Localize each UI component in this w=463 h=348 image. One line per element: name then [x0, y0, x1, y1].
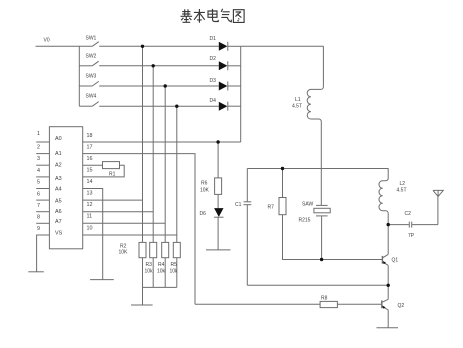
svg-text:R3: R3 [146, 262, 153, 268]
diode D2 [219, 61, 228, 70]
wire R4 bottom [164, 258, 166, 288]
svg-text:SW2: SW2 [86, 54, 97, 60]
title 基本电气图 (drawn strokes) [181, 9, 245, 23]
wire pin 12 to bus2 [83, 211, 154, 213]
wire row2 to SW2 [79, 65, 92, 67]
capacitor C1 [244, 169, 252, 286]
svg-text:D2: D2 [210, 56, 217, 62]
node SW2 tap [152, 64, 155, 67]
node SW3 tap [164, 84, 167, 87]
pin 3 stub [36, 164, 49, 166]
svg-text:R8: R8 [321, 296, 328, 302]
node V0 input wire [36, 45, 93, 47]
svg-text:4.5T: 4.5T [397, 188, 407, 194]
wire D4 to bus [228, 105, 241, 107]
svg-text:4.5T: 4.5T [292, 104, 302, 110]
svg-text:R6: R6 [201, 181, 208, 187]
svg-text:15: 15 [87, 168, 93, 174]
resistor R7 [279, 198, 286, 215]
pin 9 stub [36, 234, 49, 236]
pin 6 stub [36, 199, 49, 201]
ground below D6 [206, 249, 231, 251]
svg-text:D4: D4 [210, 98, 217, 104]
svg-text:10K: 10K [200, 188, 210, 194]
svg-text:17: 17 [87, 145, 93, 151]
ground below Q2 [377, 327, 399, 329]
svg-text:VS: VS [55, 231, 63, 237]
wire SW1 to D1 [99, 45, 219, 47]
title char 本 [194, 9, 205, 23]
svg-text:SW3: SW3 [86, 74, 97, 80]
wire vertical bus 4 [176, 106, 178, 242]
diode D3 [219, 82, 228, 91]
svg-text:14: 14 [87, 179, 93, 185]
wire vertical bus 3 [164, 86, 166, 242]
svg-text:10k: 10k [170, 269, 179, 275]
switch SW2 [92, 61, 98, 66]
svg-text:16: 16 [87, 156, 93, 162]
svg-text:11: 11 [87, 214, 93, 220]
svg-text:R4: R4 [158, 262, 165, 268]
wire L1 to crystal [320, 122, 322, 206]
svg-text:Q1: Q1 [392, 258, 399, 264]
wire R2 bottom [142, 258, 144, 288]
wire R8 to Q2 base [337, 303, 381, 305]
svg-text:L2: L2 [400, 181, 406, 187]
wire R3 bottom [152, 258, 154, 288]
svg-text:SW1: SW1 [86, 36, 97, 42]
svg-text:SAW: SAW [302, 202, 313, 208]
wire pin 11 to bus3 [83, 222, 166, 224]
inductor L2 [379, 169, 388, 214]
pin 2 stub [36, 153, 49, 155]
wire R7 branch [282, 169, 284, 198]
wire R6 branch [217, 142, 219, 178]
wire SW3 to D3 [99, 85, 219, 87]
svg-text:V0: V0 [44, 38, 50, 44]
svg-text:A1: A1 [55, 151, 62, 157]
svg-text:10K: 10K [119, 250, 129, 256]
svg-text:R215: R215 [299, 218, 311, 224]
svg-text:C2: C2 [405, 211, 412, 217]
wire R1 loop to pin 15 [83, 165, 125, 177]
wire pin 17 branch [83, 154, 195, 305]
node Q1 base [320, 258, 323, 261]
wire pin9 to ground [36, 235, 38, 272]
title char 基 [181, 9, 193, 22]
wire base rail to Q1 [322, 259, 383, 261]
wire resistor bottom rail [143, 286, 177, 288]
svg-text:6: 6 [37, 192, 40, 198]
svg-text:R7: R7 [268, 205, 275, 211]
svg-text:5: 5 [37, 180, 40, 186]
svg-text:R1: R1 [109, 172, 116, 178]
title char 气 [221, 9, 231, 22]
wire R6 to D6 [217, 194, 219, 208]
antenna ANT1 [433, 190, 443, 196]
svg-text:10k: 10k [145, 269, 154, 275]
diode D4 [219, 102, 228, 111]
svg-text:SW4: SW4 [86, 94, 97, 100]
wire SW4 to D4 [99, 105, 219, 107]
switch SW3 [92, 81, 98, 86]
wire pin 10 to bus4 [83, 234, 177, 236]
wire row3 to SW3 [79, 85, 92, 87]
svg-text:10k: 10k [157, 269, 166, 275]
switch SW4 [92, 102, 98, 107]
ground below resistor network [131, 304, 153, 306]
svg-text:L1: L1 [295, 97, 301, 103]
svg-text:7: 7 [37, 203, 40, 209]
wire D6 to ground [217, 217, 219, 250]
resistor R8 [320, 301, 337, 307]
resistor R6 [215, 178, 222, 195]
wire rail to ground [142, 287, 144, 305]
wire Q1 emitter down [387, 265, 389, 285]
wire vertical bus 2 [152, 66, 154, 243]
wire D2 to bus [228, 65, 241, 67]
wire pin18 row to diode bus [83, 141, 241, 143]
diode D1 [219, 42, 228, 51]
wire Q2 emitter down [387, 310, 389, 328]
wire Q2 collector up [387, 285, 389, 299]
svg-text:1: 1 [37, 131, 40, 137]
pin 1 stub [36, 141, 49, 143]
pin 4 stub [36, 176, 49, 178]
resistor R5 [173, 242, 180, 257]
svg-text:A5: A5 [55, 199, 62, 205]
svg-text:A3: A3 [55, 176, 62, 182]
wire row4 to SW4 [79, 105, 92, 107]
wire oscillator top rail [247, 168, 388, 170]
switch SW1 [92, 42, 98, 47]
ground below pin 14 [90, 279, 114, 281]
wire diode output bus [240, 46, 242, 142]
svg-text:7P: 7P [408, 233, 415, 239]
resistor R4 [162, 242, 169, 257]
wire emitter rail [247, 284, 388, 286]
diode D6 [214, 208, 223, 217]
capacitor C2 [388, 222, 438, 228]
svg-text:18: 18 [87, 133, 93, 139]
svg-text:R5: R5 [171, 262, 178, 268]
svg-text:10: 10 [87, 226, 93, 232]
wire D1 to bus [228, 45, 241, 47]
svg-text:3: 3 [37, 156, 40, 162]
node R7 tap [281, 167, 284, 170]
wire antenna mast [437, 197, 439, 225]
wire left branch vertical [78, 46, 80, 106]
wire top rail to L1 [241, 45, 324, 47]
wire D3 to bus [228, 85, 241, 87]
IC U1 body [49, 127, 82, 249]
inductor L1 [307, 46, 323, 121]
svg-text:2: 2 [37, 145, 40, 151]
node L2 tap [387, 223, 390, 226]
resistor R3 [150, 242, 157, 257]
pin 8 stub [36, 222, 49, 224]
svg-text:Q2: Q2 [398, 303, 405, 309]
wire R5 bottom [176, 258, 178, 288]
resistor R1 [103, 162, 120, 169]
wire pin 16 to R1 [83, 164, 103, 166]
svg-text:C1: C1 [235, 202, 242, 208]
ground below pin 9 [28, 271, 44, 273]
wire pin17 branch to R8 [195, 303, 320, 305]
svg-text:12: 12 [87, 202, 93, 208]
wire tap to Q1 collector [387, 225, 389, 255]
svg-text:D3: D3 [210, 78, 217, 84]
pin 5 stub [36, 188, 49, 190]
node Q1 emitter / Q2 collector [387, 284, 390, 287]
wire R7 to base rail [283, 215, 322, 260]
crystal SAW R215 [314, 205, 330, 216]
svg-text:A4: A4 [55, 187, 62, 193]
svg-text:D1: D1 [210, 36, 217, 42]
svg-text:D6: D6 [200, 211, 207, 217]
svg-text:9: 9 [37, 226, 40, 232]
wire pin 14 to ground [83, 189, 103, 280]
title char 电 [208, 9, 218, 22]
node R6 tap [216, 140, 219, 143]
node SW1 tap [141, 45, 144, 48]
svg-text:A6: A6 [55, 209, 62, 215]
transistor Q1 [382, 254, 388, 265]
svg-text:4: 4 [37, 168, 40, 174]
wire SW2 to D2 [99, 65, 219, 67]
resistor R2 [139, 242, 146, 257]
svg-text:A2: A2 [55, 163, 62, 169]
svg-text:A0: A0 [55, 136, 62, 142]
title char 图 [233, 10, 244, 23]
pin 7 stub [36, 211, 49, 213]
wire vertical bus 1 [142, 46, 144, 242]
node SW4 tap [175, 105, 178, 108]
svg-text:13: 13 [87, 191, 93, 197]
svg-text:8: 8 [37, 215, 40, 221]
wire pin 13 to bus1 [83, 199, 143, 201]
wire crystal to base node [321, 216, 323, 259]
svg-text:A7: A7 [55, 219, 62, 225]
transistor Q2 [382, 299, 388, 310]
wire L2 to tap node [387, 213, 389, 224]
